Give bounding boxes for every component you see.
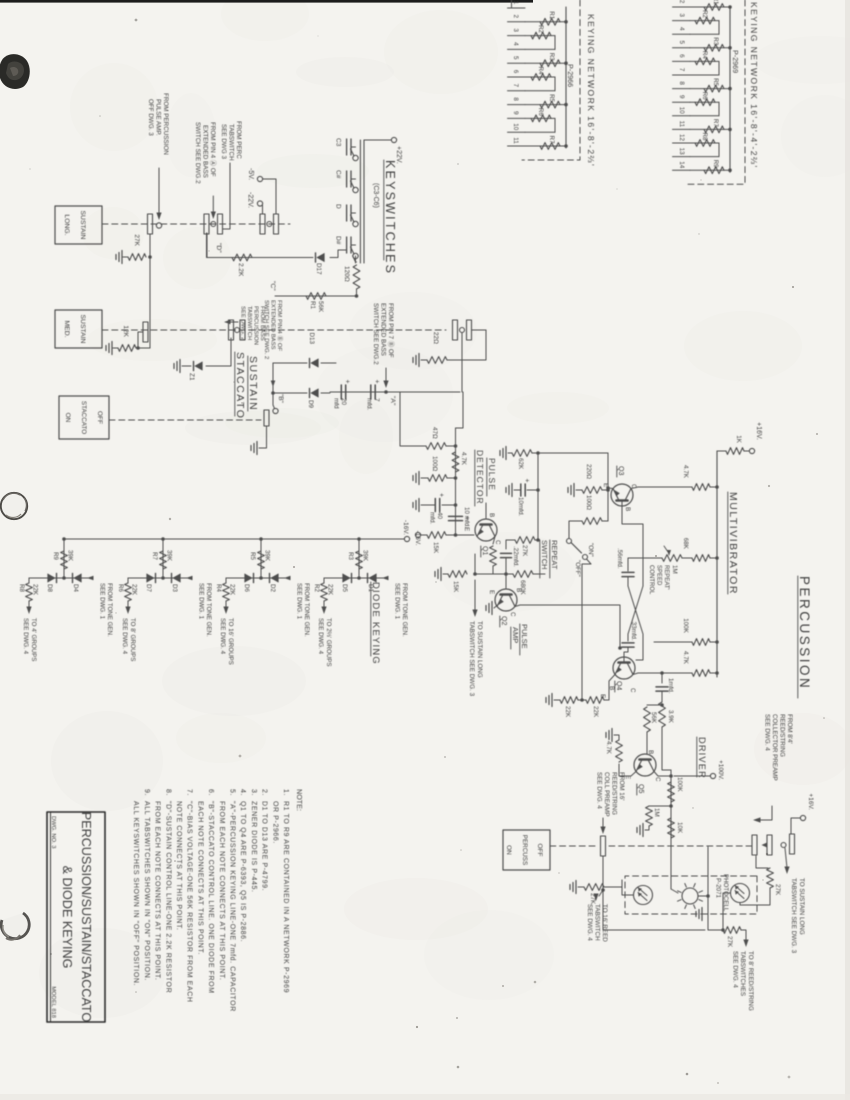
resistor 27K coupling [535,539,538,541]
svg-text:9: 9 [678,95,685,99]
diode D5 [342,573,350,582]
svg-text:SUSTAIN: SUSTAIN [79,315,86,344]
svg-text:SWITCH SEE DWG.2: SWITCH SEE DWG.2 [372,303,379,365]
resistor 15K [448,571,467,578]
svg-text:+22V.: +22V. [395,146,402,164]
ground 1M [642,824,644,837]
svg-text:4: 4 [512,42,519,46]
wire to lamp [671,838,678,893]
svg-text:D#: D# [335,236,342,245]
title block [47,812,105,1022]
svg-text:Q4: Q4 [615,681,622,690]
svg-text:R2: R2 [701,10,708,18]
resistor R5 39K [258,551,265,569]
resistor R9 [690,169,730,171]
svg-text:OFF: OFF [96,411,103,424]
svg-text:"C"-BIAS VOLTAGE-ONE 56K RESIS: "C"-BIAS VOLTAGE-ONE 56K RESISTOR FROM E… [186,801,193,1003]
svg-text:10: 10 [678,107,685,115]
wire photocell2 bottom [723,893,731,930]
svg-text:6: 6 [512,70,519,74]
keyswitch D# [353,253,358,258]
svg-text:22K: 22K [327,584,334,596]
svg-text:62K: 62K [517,458,524,470]
svg-text:EACH NOTE CONNECTS AT THIS POI: EACH NOTE CONNECTS AT THIS POINT. [196,801,203,955]
net P-2966 pin 5 [508,62,526,64]
arrow from tone gen [87,576,94,581]
svg-text:8: 8 [512,97,519,101]
wire to sustain row [474,554,476,574]
arrow from 16 [602,818,604,828]
net P-2969 pin 10 [673,115,691,117]
net P-2966 pin 3 [508,35,526,37]
arrow TO 16 reed [601,888,605,892]
svg-text:D3: D3 [171,584,178,592]
svg-text:15K: 15K [452,581,459,593]
svg-text:11: 11 [512,137,519,144]
net P-2966 pin 1 [508,7,526,9]
resistor 3.9K [659,702,666,727]
wire Q1 collector [493,537,495,545]
svg-text:100Ω: 100Ω [585,495,592,510]
svg-text:TABSWITCH SEE DWG. 3: TABSWITCH SEE DWG. 3 [468,621,475,697]
svg-text:TO 8' REED/STRING: TO 8' REED/STRING [747,951,754,1011]
svg-text:R6: R6 [117,584,124,592]
svg-text:SEE DWG. 1: SEE DWG. 1 [394,583,401,620]
svg-text:PERCUSS: PERCUSS [521,835,528,865]
resistor R8 22K [28,578,30,583]
box SUSTAIN MED [55,310,102,348]
wire Q3 base coupling [622,501,643,587]
svg-text:"OFF": "OFF" [574,560,581,577]
svg-text:R6: R6 [537,108,544,116]
resistor 2.2K on D line [232,254,252,261]
rail diode keying [64,538,404,540]
net P-2969 pin 6 [673,60,691,62]
svg-text:R9: R9 [712,160,719,168]
dashed sustain long line [102,223,290,225]
wire C line [275,295,357,297]
svg-text:39K: 39K [166,550,173,562]
svg-text:DIODE KEYING: DIODE KEYING [370,582,381,665]
net P-2969 pin 8 [673,88,691,90]
svg-text:R5: R5 [712,78,719,86]
svg-text:Q1 TO Q4 ARE P-6393, Q5 IS P-2: Q1 TO Q4 ARE P-6393, Q5 IS P-2886. [239,801,246,942]
svg-text:3.: 3. [250,789,257,796]
net P-2966 pin 11 [508,145,526,147]
svg-text:B: B [647,750,654,754]
capacitor .33mfd [622,642,634,644]
svg-text:TABSWITCH: TABSWITCH [594,904,601,941]
arrow TO 8ft reed [741,930,746,941]
resistor 27K pc1 [612,894,622,896]
svg-text:7: 7 [373,398,380,402]
svg-text:KEYSWITCHES: KEYSWITCHES [383,160,397,275]
svg-text:-16V.: -16V. [414,531,421,546]
svg-text:4.: 4. [239,789,246,796]
svg-text:14: 14 [678,161,685,169]
svg-text:R5: R5 [548,94,555,102]
keyswitch C3 [353,155,358,160]
resistor R4 [525,76,555,78]
svg-text:Q5: Q5 [637,784,644,793]
wire pc2 node to lamp wire [706,894,710,898]
zener Z1 [206,338,231,366]
wire sustain long to 12K node [149,257,151,348]
wire Q4 base [623,656,625,663]
ground 15K [440,568,442,581]
svg-text:D8: D8 [46,584,53,592]
svg-text:4.7K: 4.7K [682,651,689,665]
svg-text:& DIODE KEYING: & DIODE KEYING [60,866,74,969]
resistor R1 56K [306,293,326,300]
wire tab2 to D line [206,233,208,258]
diode D4 [73,573,81,582]
net P-2966 pin 4 [508,48,526,50]
svg-text:REED/STRING: REED/STRING [779,714,786,757]
net P-2969 pin 3 [673,20,691,22]
svg-text:8: 8 [678,81,685,85]
svg-text:FROM 16': FROM 16' [618,772,625,801]
wire A to W1 [456,392,464,428]
svg-text:mfd: mfd [333,398,340,409]
resistor R7 39K [160,551,167,569]
svg-text:R3: R3 [347,552,354,560]
svg-text:FROM TONE GEN.: FROM TONE GEN. [106,583,113,637]
svg-text:D7: D7 [145,584,152,592]
cross coupling wires [628,586,643,641]
svg-text:"ON": "ON" [587,543,594,557]
svg-text:REPEAT: REPEAT [550,540,559,570]
keying network P-2969 [687,0,745,184]
resistor 10K [668,818,675,838]
dashed staccato line [109,419,261,421]
svg-text:-5V.: -5V. [247,168,254,180]
svg-text:FROM BASS: FROM BASS [259,306,265,341]
switch REPEAT [567,539,572,544]
svg-text:5.: 5. [229,789,236,796]
arrow from pin4a [212,196,214,213]
resistor R5 [690,88,730,90]
svg-text:-16V.: -16V. [402,520,409,535]
svg-text:OR P-2966.: OR P-2966. [271,801,278,844]
svg-text:D17: D17 [315,263,322,275]
svg-text:MODEL 818: MODEL 818 [50,986,56,1018]
terminal +16V right [800,815,805,820]
svg-text:R3: R3 [712,37,719,45]
svg-text:LONG.: LONG. [63,214,70,235]
svg-text:8.: 8. [164,789,171,796]
wire Q4 collector [633,673,645,675]
svg-text:1mfd.: 1mfd. [667,678,674,694]
svg-text:D5: D5 [341,584,348,592]
resistor 22K b [560,697,578,704]
svg-text:2.2K: 2.2K [237,263,244,277]
resistor 4.7K q5 [616,740,623,762]
svg-text:ON: ON [64,413,71,423]
svg-text:R1 TO R9 ARE CONTAINED IN A NE: R1 TO R9 ARE CONTAINED IN A NETWORK P-29… [282,801,289,993]
ground 4.7K q5 [611,729,613,742]
svg-text:B: B [488,513,495,517]
svg-text:9: 9 [512,111,519,115]
svg-text:C: C [494,540,501,545]
svg-text:220Ω: 220Ω [585,464,592,479]
svg-text:+: + [344,380,351,384]
rail +16V [716,451,718,677]
svg-text:10: 10 [512,123,519,131]
svg-text:22K: 22K [32,584,39,596]
svg-text:ALL KEYSWITCHES SHOWN IN "OFF": ALL KEYSWITCHES SHOWN IN "OFF" POSITION. [132,801,139,986]
resistor 15K to -16V [454,533,458,537]
terminal -5V [257,176,262,181]
wire Q1 emitter to W1 [456,534,475,536]
svg-text:2: 2 [678,0,685,4]
svg-text:"D": "D" [215,243,222,253]
svg-text:11: 11 [678,121,685,128]
resistor 100K q5 [668,782,675,802]
node A junction [384,390,388,394]
svg-text:+: + [523,479,530,483]
wire D line [207,233,313,258]
tabswitch sustain long 3 [274,214,279,234]
svg-text:D13: D13 [308,332,315,344]
svg-text:DRIVER: DRIVER [697,737,707,779]
resistor 22ohm [447,330,486,360]
svg-text:47Ω: 47Ω [431,427,438,439]
svg-text:22K: 22K [592,706,599,718]
resistor 27K q1 [490,546,497,566]
svg-text:R7: R7 [548,136,555,144]
arrow to sustain long right [785,848,787,868]
pot 1M repeat speed [682,557,692,559]
svg-text:1K: 1K [735,435,742,444]
svg-text:4.7K: 4.7K [460,452,467,466]
svg-text:39K: 39K [67,550,74,562]
keyswitch D [353,221,358,226]
resistor R9 39K [61,551,68,569]
svg-text:REED/STRING: REED/STRING [611,772,618,815]
tabswitch 16ft [601,836,606,856]
resistor R4 [690,60,719,62]
svg-text:DETECTOR: DETECTOR [475,450,485,505]
ground 100ohm [418,472,420,485]
svg-text:27K: 27K [521,545,528,557]
diode D17 [330,250,347,258]
tabswitch sustain long 2 [218,214,223,234]
resistor 4.7K mv1 [715,485,719,489]
resistor R8 [690,142,719,144]
wire percussion circle to A line [461,333,463,393]
svg-text:C3: C3 [335,138,342,147]
svg-text:+: + [438,493,445,497]
lamp [682,888,698,904]
transistor Q2 [495,589,517,611]
resistor R7 [690,128,730,130]
arrow from tone gen [284,576,291,581]
svg-text:KEYING NETWORK 16'-8'-2⅔': KEYING NETWORK 16'-8'-2⅔' [586,14,596,167]
svg-text:+16V.: +16V. [755,422,762,440]
svg-text:39K: 39K [264,550,271,562]
resistor 27K right bottom [723,927,741,934]
svg-text:COLL PREAMP: COLL PREAMP [603,772,610,817]
capacitor 10mfd b [536,488,540,492]
svg-text:"A"-PERCUSSION KEYING LINE-ONE: "A"-PERCUSSION KEYING LINE-ONE 7mfd. CAP… [229,801,236,1012]
svg-text:100K: 100K [682,618,689,634]
resistor R6 [690,101,719,103]
svg-text:3: 3 [678,13,685,17]
net P-2969 pin 4 [673,33,691,35]
svg-text:R9: R9 [52,552,59,560]
keyswitch bus [363,140,365,263]
arrow from tone gen [382,576,389,581]
capacitor 40mfd [454,503,458,507]
svg-text:R7: R7 [712,119,719,127]
svg-text:7.: 7. [186,789,193,796]
wire D# to 120ohm [353,256,357,262]
resistor R2 [525,35,555,37]
diode keying branch 8' [161,537,165,541]
dashed photocell box [625,876,757,914]
svg-text:FROM PIN 7 Ⓑ OF: FROM PIN 7 Ⓑ OF [387,303,395,358]
resistor R1 [525,21,566,23]
resistor R5 [525,104,566,106]
svg-text:SWITCH SEE DWG.2: SWITCH SEE DWG.2 [194,122,201,184]
svg-text:ZENER DIODE IS P-445.: ZENER DIODE IS P-445. [250,801,257,893]
svg-text:FROM EACH NOTE CONNECTS AT THI: FROM EACH NOTE CONNECTS AT THIS POINT. [218,801,225,981]
diode D1 [368,573,376,582]
svg-text:Q2: Q2 [500,616,507,625]
wire branch 8' [128,577,191,579]
svg-text:R7: R7 [151,552,158,560]
svg-text:22K: 22K [564,706,571,718]
wire Q5 collector [654,772,671,777]
svg-text:COLLECTOR PREAMP: COLLECTOR PREAMP [771,714,778,781]
net P-2966 pin 7 [508,90,526,92]
transistor Q4 [613,657,635,679]
resistor 27K top right [756,856,768,868]
svg-text:56K: 56K [317,301,324,313]
svg-text:1.: 1. [282,789,289,796]
net P-2966 pin 10 [508,131,526,133]
svg-text:EXTENDED BASS: EXTENDED BASS [202,125,209,178]
svg-text:40: 40 [436,512,443,520]
svg-text:TO SUSTAIN LONG: TO SUSTAIN LONG [798,878,805,935]
resistor 22K a [604,699,609,701]
resistor R3 39K [356,551,363,569]
wire row312 up to Q3 row [538,452,608,454]
wire Q3 emitter row [607,453,609,521]
svg-text:SPEED: SPEED [656,565,662,586]
svg-text:STACCATO: STACCATO [234,352,246,419]
diode D3 [172,573,180,582]
ground photocell node [704,913,708,915]
svg-text:27K: 27K [774,884,781,896]
svg-text:"A": "A" [389,396,396,406]
svg-text:SEE DWG. 4: SEE DWG. 4 [586,904,593,941]
net P-2969 pin 11 [673,128,691,130]
svg-text:+16V.: +16V. [807,793,814,810]
svg-text:4.7K: 4.7K [682,465,689,479]
photocell P-2071 top [731,884,750,903]
resistor R3 [690,47,730,49]
svg-text:R1: R1 [309,301,316,310]
svg-text:B: B [515,588,522,592]
svg-text:12: 12 [678,134,685,142]
resistor 1K [744,450,749,452]
capacitor 20mfd [345,385,347,399]
page right edge shade [845,0,850,1100]
wire photocell1 bottom [622,880,634,895]
wire 1mfd row [660,671,664,675]
diode keying branch 16' [259,537,263,541]
transistor Q3 [611,484,633,506]
svg-text:"B"-STACCATO CONTROL LINE. ONE: "B"-STACCATO CONTROL LINE. ONE DIODE FRO… [207,801,214,994]
svg-text:22Ω: 22Ω [432,332,439,344]
svg-text:.22mfd.: .22mfd. [512,546,519,567]
ground 22ohm [418,354,420,367]
svg-text:5: 5 [678,41,685,45]
svg-text:SEE DWG 3: SEE DWG 3 [220,124,227,159]
bus P-2966 [565,7,567,148]
svg-text:100Ω: 100Ω [431,456,438,472]
ground staccato [259,426,267,448]
terminal +16V mv [749,448,754,453]
ground 22K [551,694,553,707]
diode D6 [244,573,252,582]
node Q2 base [504,572,508,576]
net P-2966 pin 9 [508,117,526,119]
svg-text:R8: R8 [701,133,708,141]
svg-text:-22V.: -22V. [247,192,254,208]
svg-text:SEE DWG. 4: SEE DWG. 4 [596,772,603,809]
svg-text:(C3-C6): (C3-C6) [372,183,379,208]
svg-text:D6: D6 [243,584,250,592]
svg-text:22K: 22K [229,584,236,596]
resistor R4 22K [225,578,227,583]
resistor R7 [525,145,566,147]
net P-2969 pin 2 [673,6,691,8]
svg-text:7: 7 [512,84,519,88]
resistor R2 [690,20,719,22]
keying network P-2966 [522,0,580,160]
box PERCUSS [503,830,550,870]
svg-text:13: 13 [678,148,685,156]
wire branch 2⅔' [324,577,387,579]
svg-text:7: 7 [678,68,685,72]
svg-text:CONTROL: CONTROL [648,565,654,595]
svg-text:SEE DWG. 1: SEE DWG. 1 [99,583,106,620]
svg-text:E: E [602,483,609,487]
svg-text:R5: R5 [249,552,256,560]
net P-2966 pin 1 edge wire [511,0,513,8]
ground 27K pc1 [575,881,577,894]
resistor 4.7K on W1 [452,452,459,472]
svg-text:FROM TONE GEN.: FROM TONE GEN. [205,583,212,637]
svg-text:Q1: Q1 [481,546,488,555]
svg-text:D2: D2 [269,584,276,592]
svg-text:1M: 1M [671,565,678,574]
cross wire 2 [628,586,643,660]
svg-text:10 mfd.: 10 mfd. [463,507,470,528]
svg-text:12K: 12K [122,325,129,337]
svg-text:D: D [335,204,342,209]
svg-text:3: 3 [512,28,519,32]
ground 62K [505,447,507,460]
transistor Q1 [475,519,497,541]
svg-text:Z1: Z1 [188,373,195,381]
svg-text:R1: R1 [548,11,555,19]
wire Q4 emitter [609,675,615,701]
svg-text:PULSE: PULSE [487,458,497,491]
